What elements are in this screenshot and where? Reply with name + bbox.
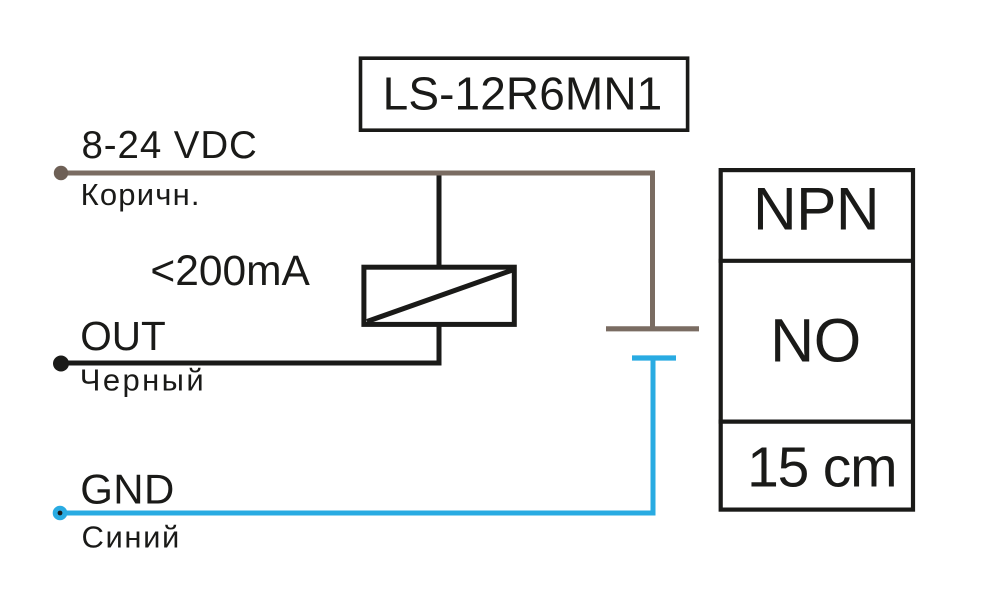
svg-text:OUT: OUT <box>80 313 166 359</box>
terminal dot OUT <box>53 356 69 372</box>
terminal dot GND <box>53 506 68 521</box>
wire blue GND horizontal <box>60 511 656 516</box>
svg-text:8-24 VDC: 8-24 VDC <box>82 124 258 167</box>
battery BT1 negative plate <box>632 355 676 360</box>
load L1 diagonal <box>367 270 514 322</box>
svg-text:NPN: NPN <box>753 175 879 243</box>
wire blue GND vertical <box>651 356 656 516</box>
svg-text:Коричн.: Коричн. <box>81 177 201 212</box>
svg-text:GND: GND <box>80 465 175 512</box>
load L1 rectangle <box>364 267 514 324</box>
svg-text:LS-12R6MN1: LS-12R6MN1 <box>383 68 663 120</box>
spec table row divider 1 <box>719 259 915 263</box>
wire black load bottom vertical <box>437 324 442 363</box>
wire black load top vertical <box>437 171 442 267</box>
svg-text:Синий: Синий <box>82 519 181 554</box>
battery BT1 positive plate <box>606 326 699 331</box>
svg-text:Черный: Черный <box>80 363 206 398</box>
svg-text:NO: NO <box>770 306 861 374</box>
part number box U1 <box>361 58 688 130</box>
spec table frame <box>721 170 913 510</box>
spec table row divider 2 <box>719 420 915 424</box>
terminal dot 8-24 VDC <box>54 166 68 180</box>
wire black OUT horizontal <box>61 361 442 366</box>
wire brown supply horizontal <box>61 171 655 176</box>
wire brown supply vertical <box>650 171 655 331</box>
svg-text:15 cm: 15 cm <box>747 435 896 499</box>
svg-text:<200mA: <200mA <box>150 248 310 295</box>
